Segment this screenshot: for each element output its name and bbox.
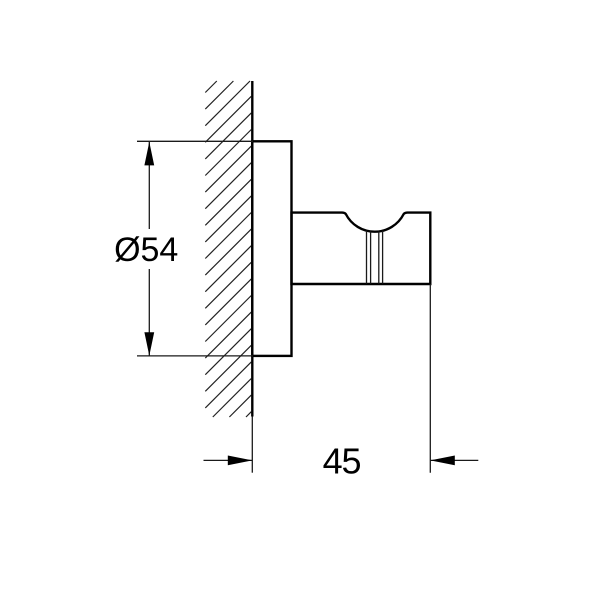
groove line 3 — [378, 231, 380, 283]
wall hatching — [205, 81, 251, 417]
dimension line 45 left — [204, 459, 253, 461]
mounting plate — [252, 141, 291, 356]
groove line 1 — [366, 231, 368, 284]
wall surface line — [251, 81, 253, 417]
extension line right (projection) — [429, 284, 431, 473]
label diameter 54 — [114, 231, 178, 269]
extension line left (projection) — [251, 417, 253, 473]
arrow right-pointing — [228, 456, 253, 466]
svg-text:Ø54: Ø54 — [114, 231, 178, 269]
arrow up — [144, 142, 154, 166]
groove line 2 — [370, 231, 372, 283]
arrow left-pointing — [430, 456, 455, 466]
label 45 — [323, 441, 361, 482]
hook body — [292, 213, 431, 284]
groove line 4 — [382, 231, 384, 284]
extension line bottom (diameter) — [137, 355, 253, 357]
svg-text:45: 45 — [323, 441, 361, 482]
dimension line diameter upper segment — [148, 142, 150, 229]
arrow down — [144, 332, 154, 356]
extension line top (diameter) — [137, 140, 253, 142]
dimension line diameter lower segment — [148, 269, 150, 356]
dimension line 45 right — [431, 459, 479, 461]
